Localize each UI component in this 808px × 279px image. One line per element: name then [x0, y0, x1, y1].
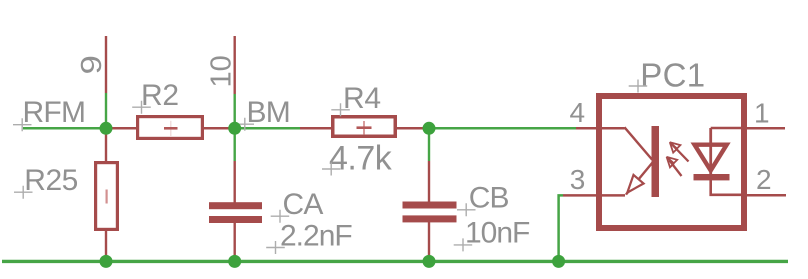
capacitor CB bottom plate	[403, 215, 457, 222]
wire red to CB	[428, 161, 430, 202]
net wire BM green segment	[235, 127, 300, 130]
2.2nF origin cross	[266, 241, 285, 254]
R4 name origin cross	[331, 103, 350, 116]
LED triangle	[695, 145, 727, 171]
svg-text:2: 2	[756, 164, 772, 195]
phototransistor emitter diagonal	[626, 163, 653, 195]
pin 3 red stub into PC1	[563, 194, 625, 197]
R2 name origin cross	[132, 101, 151, 114]
vertical net 9 red segment	[105, 36, 107, 93]
svg-text:2.2nF: 2.2nF	[280, 219, 352, 252]
junction dot rail R25	[100, 255, 113, 268]
pin 2 red stub	[744, 194, 786, 197]
capacitor CA top plate	[209, 202, 262, 209]
emitter arrowhead	[627, 175, 643, 193]
capacitor CA bottom plate	[209, 216, 262, 223]
R25 origin cross	[105, 190, 107, 204]
wire red dot1 down to R25	[105, 128, 107, 162]
phototransistor collector diagonal	[625, 127, 653, 159]
BM origin cross	[236, 118, 255, 131]
CA name origin cross	[271, 210, 290, 223]
vertical net 10 green segment	[233, 94, 235, 128]
wire red CB to rail	[428, 222, 430, 260]
LED cathode bar	[694, 174, 730, 180]
R4 origin cross	[363, 121, 365, 134]
light ray arrow lower	[667, 157, 682, 176]
phototransistor base bar	[652, 126, 660, 197]
pin 4 red stub into PC1	[576, 127, 625, 130]
wire red to CA	[233, 161, 235, 203]
junction dot node BM	[228, 122, 241, 135]
pin 1 red stub	[744, 127, 785, 130]
R2 origin cross	[170, 121, 172, 136]
10nF origin cross	[454, 238, 473, 251]
LED center vertical lead	[709, 128, 712, 180]
svg-text:9: 9	[75, 55, 108, 74]
svg-text:4: 4	[570, 97, 586, 128]
optocoupler PC1 box	[599, 96, 744, 228]
PC1 origin cross	[629, 80, 648, 93]
junction dot node RFM	[100, 122, 113, 135]
svg-text:4.7k: 4.7k	[329, 139, 393, 177]
net wire green pin3 vertical	[559, 195, 563, 260]
CB name origin cross	[457, 203, 476, 216]
svg-text:10: 10	[206, 55, 238, 87]
LED cathode wire to pin2	[711, 180, 744, 195]
net wire green segment dot3 to PC1 pin4	[429, 127, 576, 130]
svg-text:PC1: PC1	[640, 56, 705, 93]
resistor R2	[138, 117, 203, 139]
vertical net 10 red segment	[233, 36, 235, 94]
wire red segment to R4	[300, 127, 332, 130]
capacitor CB top plate	[403, 202, 457, 209]
wire red segment dot1 to R2	[106, 127, 137, 130]
R25 name origin cross	[14, 186, 33, 199]
wire red segment R4 to dot3	[396, 127, 429, 130]
wire red CA to rail	[233, 223, 235, 260]
svg-text:RFM: RFM	[23, 96, 86, 129]
wire red segment R2 to dot2	[203, 127, 235, 130]
net wire green dot3 down	[428, 128, 430, 161]
resistor R4	[333, 117, 396, 137]
LED anode wire from pin1	[711, 127, 744, 130]
vertical net 9 green segment	[105, 93, 107, 128]
wire red R25 to rail	[105, 229, 107, 260]
bottom ground rail green	[2, 260, 788, 263]
junction dot rail CB	[423, 255, 436, 268]
junction dot rail CA	[228, 255, 241, 268]
light ray arrow upper	[670, 142, 689, 161]
4.7k origin cross	[322, 163, 341, 176]
net wire RFM horizontal segment	[23, 127, 106, 130]
svg-text:10nF: 10nF	[465, 217, 530, 250]
svg-text:3: 3	[570, 164, 586, 195]
junction dot rail pin3	[552, 255, 565, 268]
junction dot node R4-CB	[423, 122, 436, 135]
net wire green dot2 down	[233, 128, 235, 161]
svg-text:1: 1	[754, 98, 770, 129]
RFM origin cross	[13, 118, 32, 131]
resistor R25	[96, 163, 118, 230]
